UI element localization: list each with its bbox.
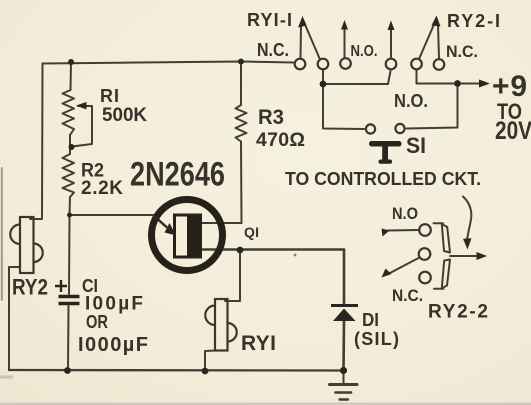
svg-text:N.C.: N.C. [392,286,423,305]
svg-text:RI: RI [100,86,119,106]
svg-text:I000µF: I000µF [78,334,148,356]
svg-text:2.2K: 2.2K [81,178,123,199]
svg-text:R3: R3 [258,106,284,129]
svg-text:500K: 500K [102,105,147,126]
svg-text:DI: DI [362,310,379,330]
svg-text:SI: SI [406,133,426,158]
svg-text:N.C.: N.C. [257,40,289,60]
svg-text:N.O: N.O [392,205,418,223]
svg-text:OR: OR [86,312,108,332]
svg-text:RY2-2: RY2-2 [428,302,488,323]
svg-text:N.C.: N.C. [446,42,478,61]
svg-text:RYI-I: RYI-I [247,10,292,30]
svg-text:2N2646: 2N2646 [130,156,225,194]
svg-text:QI: QI [244,224,259,240]
svg-text:RY2: RY2 [12,275,48,300]
svg-text:(SIL): (SIL) [354,329,399,349]
svg-text:470Ω: 470Ω [256,129,305,151]
svg-text:N.O.: N.O. [351,43,378,60]
svg-text:20V: 20V [495,117,531,145]
svg-text:RYI: RYI [241,332,276,355]
svg-text:N.O.: N.O. [394,91,428,111]
svg-text:TO CONTROLLED CKT.: TO CONTROLLED CKT. [285,169,481,189]
